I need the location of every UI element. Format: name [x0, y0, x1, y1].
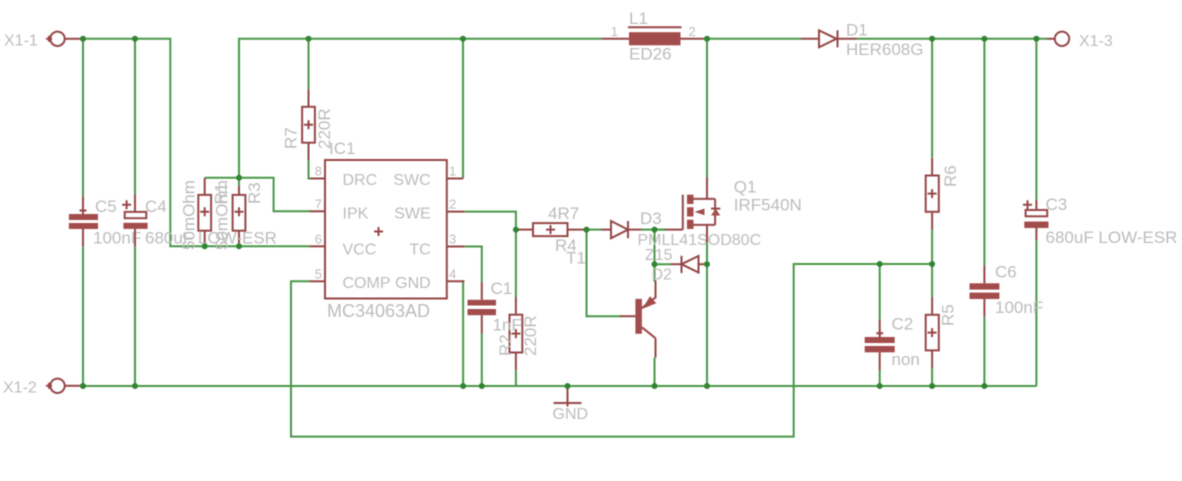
- wire R4 branch: [516, 229, 520, 231]
- zener diode D2: [645, 247, 706, 284]
- wire SWC pin1 riser: [462, 39, 464, 179]
- junction node SWE/R4: [513, 227, 519, 233]
- wire T1 base branch: [587, 230, 622, 317]
- svg-text:GND: GND: [395, 275, 431, 292]
- svg-text:X1-2: X1-2: [3, 380, 37, 397]
- svg-text:2: 2: [689, 24, 696, 39]
- svg-text:X1-1: X1-1: [4, 33, 38, 50]
- svg-text:3: 3: [449, 232, 456, 247]
- svg-text:R7: R7: [282, 127, 301, 149]
- pin 7 IPK: [310, 196, 369, 222]
- svg-text:4R7: 4R7: [548, 204, 579, 223]
- svg-text:IPK: IPK: [343, 206, 369, 223]
- pin 4 GND: [395, 266, 464, 292]
- pin 1 SWC: [393, 164, 463, 190]
- diode D3: [601, 209, 761, 249]
- terminal X1-3: [1047, 32, 1113, 50]
- wire C4 column: [134, 39, 136, 194]
- resistor R4: [519, 204, 586, 268]
- wire T1 emitter bottom: [654, 358, 656, 386]
- svg-text:GND: GND: [553, 406, 589, 423]
- wire D2 left lead: [655, 263, 672, 265]
- resistor R6: [926, 158, 960, 230]
- pin 6 VCC: [310, 231, 376, 258]
- svg-text:T1: T1: [566, 249, 586, 268]
- transistor Q1 MOSFET: [665, 177, 802, 243]
- svg-text:7: 7: [315, 196, 322, 211]
- junction nodes feedback line: [877, 261, 883, 267]
- svg-text:1nF: 1nF: [493, 316, 522, 335]
- wire R5 column: [931, 264, 933, 297]
- junction node D2 anode: [652, 261, 658, 267]
- wire D2 right to Q1 source column: [705, 263, 708, 265]
- svg-text:100nF: 100nF: [995, 298, 1043, 317]
- svg-text:X1-3: X1-3: [1079, 33, 1113, 50]
- wire COMP feedback loop: [291, 264, 932, 437]
- svg-text:8: 8: [315, 164, 322, 179]
- op-amp IC1 MC34063AD box: [325, 139, 447, 321]
- wire R3 leads: [238, 185, 240, 195]
- svg-text:COMP: COMP: [343, 275, 391, 292]
- wire D1 to X1-3: [857, 38, 1048, 40]
- transistor T1: [620, 281, 656, 358]
- svg-text:HER608G: HER608G: [846, 40, 923, 59]
- svg-text:IRF540N: IRF540N: [734, 196, 802, 215]
- svg-text:6: 6: [315, 231, 322, 246]
- svg-text:ED26: ED26: [629, 45, 672, 64]
- svg-text:Z15: Z15: [645, 247, 673, 264]
- wire Q1 gate: [655, 229, 666, 231]
- inductor L1: [602, 9, 703, 64]
- svg-text:C3: C3: [1046, 195, 1068, 214]
- svg-text:5: 5: [315, 266, 322, 281]
- wire R7 column: [308, 39, 310, 89]
- wire SWE to R2/R4: [464, 212, 516, 297]
- svg-text:SWC: SWC: [393, 172, 430, 189]
- capacitor C2: [865, 315, 920, 371]
- wire Q1 source column: [706, 243, 708, 386]
- svg-text:non: non: [892, 350, 920, 369]
- pin 5 COMP: [310, 266, 391, 292]
- svg-text:1: 1: [449, 164, 456, 179]
- svg-text:D3: D3: [640, 209, 662, 228]
- capacitor C6: [970, 263, 1044, 318]
- diode D1: [801, 21, 923, 60]
- wire R1 leads: [204, 178, 206, 195]
- svg-text:C1: C1: [491, 279, 513, 298]
- terminal X1-1: [4, 32, 81, 50]
- svg-text:50mOhm: 50mOhm: [213, 180, 232, 250]
- junction node R4/D3/T1 base: [584, 227, 590, 233]
- svg-text:220R: 220R: [521, 315, 540, 356]
- wire bottom ground rail: [81, 385, 1036, 387]
- svg-text:L1: L1: [629, 9, 648, 28]
- svg-text:TC: TC: [409, 242, 430, 259]
- svg-text:VCC: VCC: [343, 242, 377, 259]
- wire C3 column: [1035, 39, 1037, 200]
- wire Q1 drain column: [706, 39, 708, 178]
- junction node sense top: [236, 175, 242, 181]
- wire IPK sense top line: [205, 178, 311, 212]
- capacitor C3: [1023, 195, 1177, 247]
- resistor R2: [496, 297, 540, 370]
- svg-text:50mOhm: 50mOhm: [180, 180, 199, 250]
- wire C1 branch from TC: [464, 247, 481, 283]
- wire top rail right segment to L1: [239, 39, 602, 178]
- junction node D2 cathode / Q1 source: [704, 261, 710, 267]
- wire C6 column: [983, 39, 985, 266]
- wire T1 collector top: [654, 264, 656, 281]
- svg-text:DRC: DRC: [343, 172, 378, 189]
- svg-text:2: 2: [449, 197, 456, 212]
- svg-text:D1: D1: [846, 21, 868, 40]
- pin 3 TC: [409, 232, 464, 259]
- terminal X1-2: [3, 379, 81, 397]
- svg-text:Q1: Q1: [734, 178, 757, 197]
- svg-text:R2: R2: [496, 334, 515, 356]
- resistor R5: [926, 297, 958, 368]
- svg-text:C4: C4: [145, 197, 167, 216]
- svg-text:100nF: 100nF: [93, 229, 141, 248]
- svg-text:R5: R5: [939, 304, 958, 326]
- wire D3 branch: [587, 229, 602, 231]
- wire GND pin4 branch: [463, 281, 464, 386]
- pin 8 DRC: [310, 164, 377, 190]
- svg-text:SWE: SWE: [394, 206, 430, 223]
- svg-text:R3: R3: [245, 182, 264, 204]
- wire L1 to D1: [703, 38, 801, 40]
- capacitor C1: [468, 279, 522, 335]
- svg-text:C6: C6: [995, 263, 1017, 282]
- svg-text:1: 1: [611, 24, 618, 39]
- wire top rail left segment: [81, 39, 311, 247]
- ground symbol GND: [553, 386, 589, 423]
- svg-text:IC1: IC1: [329, 139, 355, 158]
- resistor R7: [282, 89, 335, 160]
- junction dots top rail: [80, 36, 86, 42]
- wire C2 column: [879, 264, 881, 319]
- wire D3 node down to D2 node: [654, 230, 656, 265]
- svg-text:R6: R6: [941, 165, 960, 187]
- svg-text:MC34063AD: MC34063AD: [327, 301, 430, 321]
- junction dots bottom rail: [80, 383, 86, 389]
- capacitor C4: [122, 194, 277, 247]
- wire R6 column: [931, 39, 933, 158]
- resistor R3: [213, 180, 265, 250]
- junction nodes VCC line: [202, 243, 208, 249]
- pin 2 SWE: [394, 197, 464, 223]
- svg-text:C5: C5: [95, 197, 117, 216]
- svg-text:C2: C2: [892, 315, 914, 334]
- svg-text:4: 4: [449, 266, 456, 281]
- svg-text:680uF LOW-ESR: 680uF LOW-ESR: [1046, 228, 1178, 247]
- junction node D3 cathode: [652, 227, 658, 233]
- wire C5 column: [82, 39, 84, 197]
- resistor R1: [180, 180, 231, 250]
- capacitor C5: [69, 196, 141, 247]
